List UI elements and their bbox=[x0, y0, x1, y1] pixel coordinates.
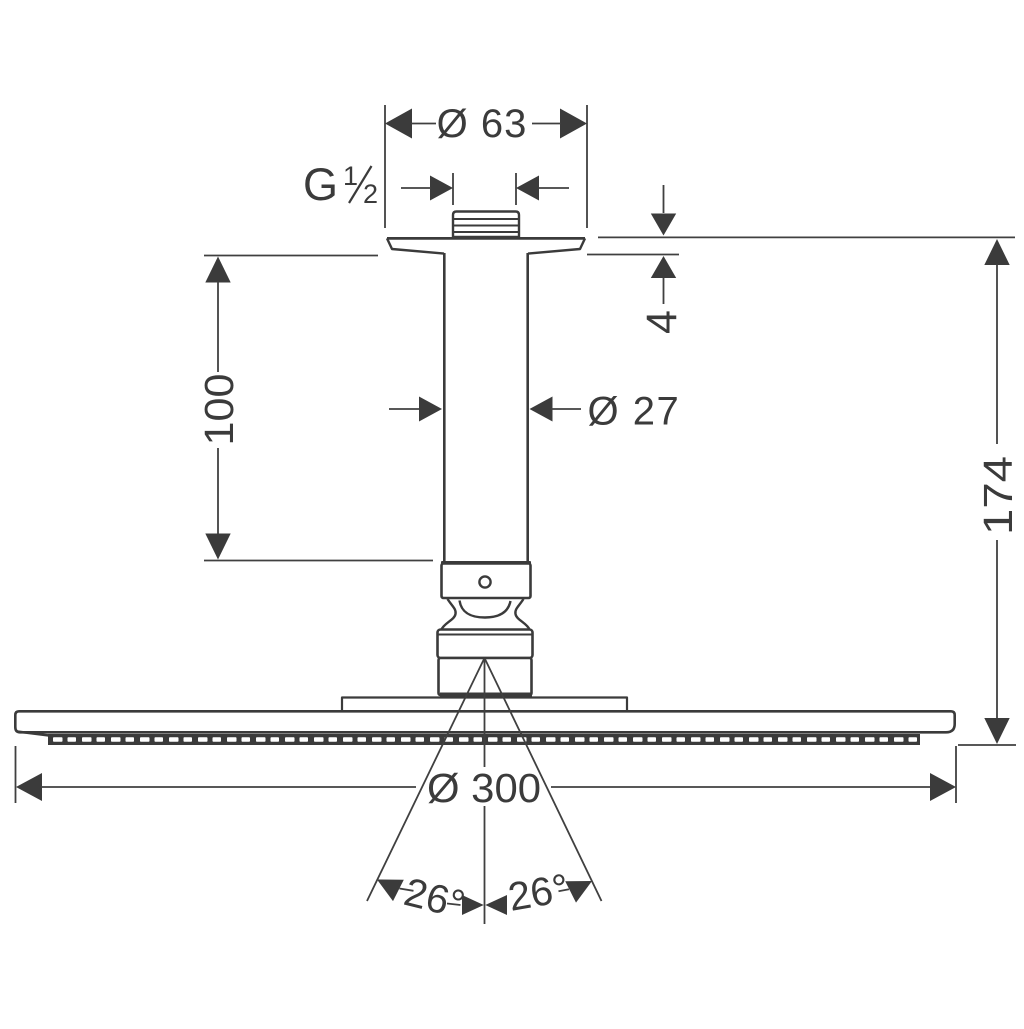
dim 4 upper leader line bbox=[663, 185, 665, 213]
head connector lower box bottom band bbox=[440, 693, 532, 698]
nozzle band left slope bbox=[17, 732, 49, 736]
head connector upper box bbox=[438, 630, 533, 659]
dim O27 right arrow bbox=[530, 397, 553, 422]
dim 26 left dash bbox=[447, 904, 461, 906]
dim O300 right extension line bbox=[955, 746, 957, 803]
dim 100 line upper segment bbox=[217, 282, 219, 373]
svg-text:100: 100 bbox=[196, 374, 242, 446]
ball joint left contour bbox=[442, 599, 456, 630]
dim G1/2 right tail line bbox=[538, 187, 569, 189]
dim 26 center left-pointing arrow bbox=[485, 895, 507, 915]
dim G1/2 right arrow bbox=[516, 176, 539, 201]
dim 174 line upper segment bbox=[996, 264, 998, 444]
dim 100 bottom extension line bbox=[204, 560, 433, 562]
dim 174 up arrow bbox=[984, 239, 1009, 265]
ceiling plate escutcheon top bbox=[387, 237, 585, 240]
dim G1/2 right extension line bbox=[515, 173, 517, 205]
spray center line upper segment bbox=[484, 659, 486, 767]
svg-text:Ø 300: Ø 300 bbox=[427, 765, 541, 811]
dim 26 right dash bbox=[559, 889, 570, 891]
dim O27 left arrow bbox=[419, 397, 442, 422]
dim G1/2 left tail line bbox=[401, 187, 431, 189]
dim 100 top extension line bbox=[204, 255, 378, 257]
ceiling plate escutcheon right edge bbox=[528, 238, 585, 253]
thread line 1 bbox=[453, 218, 519, 220]
spray angle right line bbox=[485, 659, 602, 901]
spray center line lower segment bbox=[484, 806, 486, 924]
svg-text:G: G bbox=[303, 159, 338, 210]
plate bottom reference line bbox=[587, 254, 679, 256]
connector box with set screw bbox=[442, 564, 531, 599]
connector box top edge thick bbox=[441, 561, 531, 566]
set screw bbox=[479, 576, 490, 587]
dim O63 line right segment bbox=[532, 123, 561, 125]
dim 174 bottom extension line bbox=[958, 744, 1016, 746]
ceiling plate escutcheon left edge bbox=[387, 238, 444, 253]
svg-text:Ø 27: Ø 27 bbox=[588, 390, 681, 434]
ball joint sphere lower arc bbox=[460, 601, 511, 618]
dim O27 right tail line bbox=[551, 408, 581, 410]
ceiling reference line right bbox=[598, 236, 1015, 238]
ball joint right contour bbox=[515, 599, 529, 630]
pipe left wall bbox=[443, 253, 446, 563]
svg-text:174: 174 bbox=[975, 456, 1021, 535]
thread block bbox=[453, 212, 519, 238]
svg-text:Ø 63: Ø 63 bbox=[437, 102, 528, 146]
dim 100 up arrow bbox=[205, 257, 230, 283]
head connector lower box bbox=[439, 658, 532, 695]
svg-text:4: 4 bbox=[638, 310, 686, 334]
pipe right wall bbox=[526, 253, 529, 563]
dim 174 down arrow bbox=[984, 718, 1009, 744]
dim O300 line left segment bbox=[41, 786, 416, 788]
dim O63 left extension line bbox=[384, 105, 386, 228]
dim O63 right extension line bbox=[586, 105, 588, 228]
dim 100 down arrow bbox=[205, 534, 230, 560]
dim 4 lower leader line bbox=[663, 278, 665, 304]
dim O63 left arrow bbox=[385, 109, 412, 139]
dim O27 left tail line bbox=[389, 408, 420, 410]
svg-text:26°: 26° bbox=[505, 866, 572, 920]
dim 4 down arrow bbox=[651, 214, 676, 236]
dim 4 up arrow bbox=[651, 256, 676, 278]
dim O63 right arrow bbox=[560, 109, 587, 139]
dim 26 left outer arrow bbox=[377, 880, 404, 902]
dim 26 left outer dash bbox=[400, 889, 414, 891]
dim G1/2 left arrow bbox=[430, 176, 453, 201]
dim 26 center right-pointing arrow bbox=[462, 895, 484, 915]
nozzle band bbox=[48, 734, 920, 745]
svg-text:1: 1 bbox=[343, 161, 358, 191]
dim 26 right outer arrow bbox=[565, 881, 592, 903]
thread line 2 bbox=[453, 225, 519, 227]
dim 100 line lower segment bbox=[217, 448, 219, 536]
shower head disc bbox=[15, 711, 954, 732]
svg-text:2: 2 bbox=[363, 179, 378, 209]
dim O300 left arrow bbox=[16, 773, 42, 801]
spray angle left line bbox=[367, 659, 484, 901]
svg-text:26°: 26° bbox=[400, 870, 469, 927]
mounting plate bbox=[342, 698, 627, 712]
dim O300 right arrow bbox=[930, 773, 956, 801]
head connector upper box inner line bbox=[438, 634, 533, 636]
dim O300 line right segment bbox=[551, 786, 931, 788]
dim G1/2 left extension line bbox=[452, 173, 454, 205]
dim 174 line lower segment bbox=[996, 540, 998, 720]
thread line 3 bbox=[453, 231, 519, 233]
dim O300 left extension line bbox=[15, 746, 17, 803]
dim O63 line left segment bbox=[411, 123, 436, 125]
